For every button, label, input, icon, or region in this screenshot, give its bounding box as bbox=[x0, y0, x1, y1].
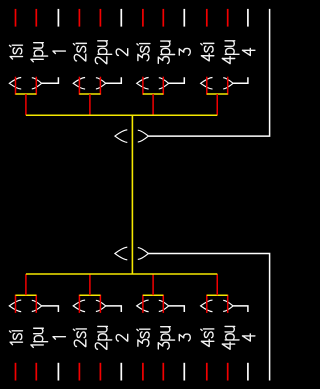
net label 2 bottom bbox=[116, 334, 127, 341]
net label 4pu top bbox=[222, 41, 239, 64]
net label 3pu top bbox=[158, 41, 174, 63]
white stub wire net 4 (top) bbox=[233, 77, 248, 83]
net stub tick bottom col 4pu bbox=[227, 363, 229, 381]
drop wire red (top J4) bbox=[216, 94, 218, 115]
net label 1si top bbox=[10, 45, 23, 59]
drop wire red (bottom J5) bbox=[25, 274, 27, 295]
center vertical yellow net bbox=[131, 115, 133, 274]
net stub tick top col 4 bbox=[247, 9, 249, 27]
white stub wire net 2 (top) bbox=[106, 77, 122, 83]
white stub wire net 2 (bottom) bbox=[106, 306, 122, 312]
drop wire red (top J2) bbox=[89, 94, 91, 115]
net label 3si top bbox=[137, 44, 150, 61]
net label 1 bottom bbox=[53, 337, 65, 339]
connector J4 pin 4pu socket symbol (top) bbox=[223, 78, 233, 89]
net label 2pu top bbox=[95, 41, 111, 64]
connector J7 pin 3pu socket symbol (bottom) bbox=[159, 300, 169, 311]
pair bus yellow (top J2) bbox=[79, 93, 100, 95]
pin 2pu wire (red, bottom) bbox=[99, 295, 101, 313]
white stub wire net 3 (bottom) bbox=[169, 306, 185, 312]
net label 3 top bbox=[179, 48, 190, 55]
net label 4si top bbox=[201, 43, 214, 61]
drop wire red (top J3) bbox=[152, 94, 154, 115]
connector J3 pin 3pu socket symbol (top) bbox=[159, 78, 169, 89]
net stub tick bottom col 1pu bbox=[35, 363, 37, 381]
net label 4 top bbox=[243, 48, 255, 55]
connector J6 pin 2si socket symbol (bottom) bbox=[73, 300, 85, 312]
pin 2si wire (red, bottom) bbox=[78, 295, 80, 313]
pair bus yellow (top J1) bbox=[16, 93, 37, 95]
net stub tick bottom col 2 bbox=[120, 363, 122, 381]
connector J1 pin 1pu socket symbol (top) bbox=[32, 78, 42, 89]
net label 1si bottom bbox=[10, 331, 23, 345]
connector J5 pin 1si socket symbol (bottom) bbox=[9, 300, 21, 312]
net stub tick top col 2 bbox=[120, 9, 122, 27]
net stub tick top col 4si bbox=[206, 9, 208, 27]
net label 2pu bottom bbox=[95, 326, 111, 349]
net stub tick bottom col 3pu bbox=[162, 363, 164, 381]
net stub tick top col 4pu bbox=[227, 9, 229, 27]
connector J2 pin 2si socket symbol (top) bbox=[73, 78, 85, 90]
pair bus yellow (bottom J8) bbox=[207, 294, 228, 296]
net stub tick bottom col 1 bbox=[57, 363, 59, 381]
connector J8 pin 4si socket symbol (bottom) bbox=[201, 300, 213, 312]
net label 3pu bottom bbox=[158, 327, 174, 349]
pin 4pu wire (red, bottom) bbox=[227, 295, 229, 313]
net stub tick bottom col 4 bbox=[247, 363, 249, 381]
net stub tick bottom col 1si bbox=[15, 363, 17, 381]
net label 2 top bbox=[116, 49, 127, 56]
net stub tick top col 2si bbox=[78, 9, 80, 27]
pair bus yellow (bottom J7) bbox=[143, 294, 163, 296]
white stub wire net 1 (bottom) bbox=[42, 306, 59, 312]
connector J4 pin 4si socket symbol (top) bbox=[201, 78, 213, 90]
net label 1pu top bbox=[31, 43, 48, 62]
main bus yellow bottom bbox=[26, 273, 217, 275]
pin 4pu wire (red, top) bbox=[227, 77, 229, 95]
pin 4si wire (red, top) bbox=[206, 77, 208, 95]
net stub tick bottom col 2pu bbox=[99, 363, 101, 381]
pin 2pu wire (red, top) bbox=[99, 77, 101, 95]
net label 1 top bbox=[53, 51, 65, 53]
pin 4si wire (red, bottom) bbox=[206, 295, 208, 313]
connector J8 pin 4pu socket symbol (bottom) bbox=[223, 300, 233, 311]
net stub tick top col 1 bbox=[57, 9, 59, 27]
net stub tick top col 1pu bbox=[35, 9, 37, 27]
pin 3si wire (red, top) bbox=[142, 77, 144, 95]
pin 1pu wire (red, top) bbox=[35, 77, 37, 95]
net stub tick bottom col 4si bbox=[206, 363, 208, 381]
net label 4 bottom bbox=[243, 334, 255, 341]
middle connector lower right symbol bbox=[138, 248, 149, 260]
net label 3 bottom bbox=[179, 334, 190, 341]
connector J6 pin 2pu socket symbol (bottom) bbox=[96, 300, 106, 311]
pin 1si wire (red, top) bbox=[15, 77, 17, 95]
pin 1si wire (red, bottom) bbox=[15, 295, 17, 313]
connector J1 pin 1si socket symbol (top) bbox=[9, 78, 21, 90]
net stub tick top col 2pu bbox=[99, 9, 101, 27]
connector J5 pin 1pu socket symbol (bottom) bbox=[32, 300, 42, 311]
pin 3pu wire (red, bottom) bbox=[162, 295, 164, 313]
net label 2si top bbox=[73, 43, 86, 61]
drop wire red (bottom J6) bbox=[89, 274, 91, 295]
connector J3 pin 3si socket symbol (top) bbox=[137, 78, 149, 90]
net stub tick bottom col 2si bbox=[78, 363, 80, 381]
middle connector upper left symbol bbox=[115, 130, 127, 143]
connector J7 pin 3si socket symbol (bottom) bbox=[137, 300, 149, 312]
net label 4si bottom bbox=[201, 329, 214, 347]
net stub tick top col 1si bbox=[15, 9, 17, 27]
pair bus yellow (top J3) bbox=[143, 93, 163, 95]
pair bus yellow (bottom J6) bbox=[79, 294, 100, 296]
white wire upper: middle pair to top-right corner bbox=[148, 9, 269, 136]
net stub tick top col 3 bbox=[183, 9, 185, 27]
drop wire red (top J1) bbox=[25, 94, 27, 115]
net stub tick bottom col 3 bbox=[183, 363, 185, 381]
pin 1pu wire (red, bottom) bbox=[35, 295, 37, 313]
net label 1pu bottom bbox=[31, 328, 48, 347]
pin 3pu wire (red, top) bbox=[162, 77, 164, 95]
white stub wire net 3 (top) bbox=[169, 77, 185, 83]
main bus yellow top bbox=[26, 114, 217, 116]
pair bus yellow (top J4) bbox=[207, 93, 228, 95]
middle connector upper right symbol bbox=[138, 130, 149, 142]
pin 3si wire (red, bottom) bbox=[142, 295, 144, 313]
white stub wire net 4 (bottom) bbox=[233, 306, 248, 312]
white stub wire net 1 (top) bbox=[42, 77, 59, 83]
connector J2 pin 2pu socket symbol (top) bbox=[96, 78, 106, 89]
net label 2si bottom bbox=[73, 329, 86, 347]
middle connector lower left symbol bbox=[115, 247, 127, 260]
net label 4pu bottom bbox=[222, 326, 239, 349]
white wire lower: middle pair to bottom-right corner bbox=[148, 254, 269, 381]
drop wire red (bottom J8) bbox=[216, 274, 218, 295]
net stub tick top col 3si bbox=[142, 9, 144, 27]
net label 3si bottom bbox=[137, 329, 150, 346]
net stub tick bottom col 3si bbox=[142, 363, 144, 381]
net stub tick top col 3pu bbox=[162, 9, 164, 27]
pair bus yellow (bottom J5) bbox=[16, 294, 37, 296]
pin 2si wire (red, top) bbox=[78, 77, 80, 95]
drop wire red (bottom J7) bbox=[152, 274, 154, 295]
